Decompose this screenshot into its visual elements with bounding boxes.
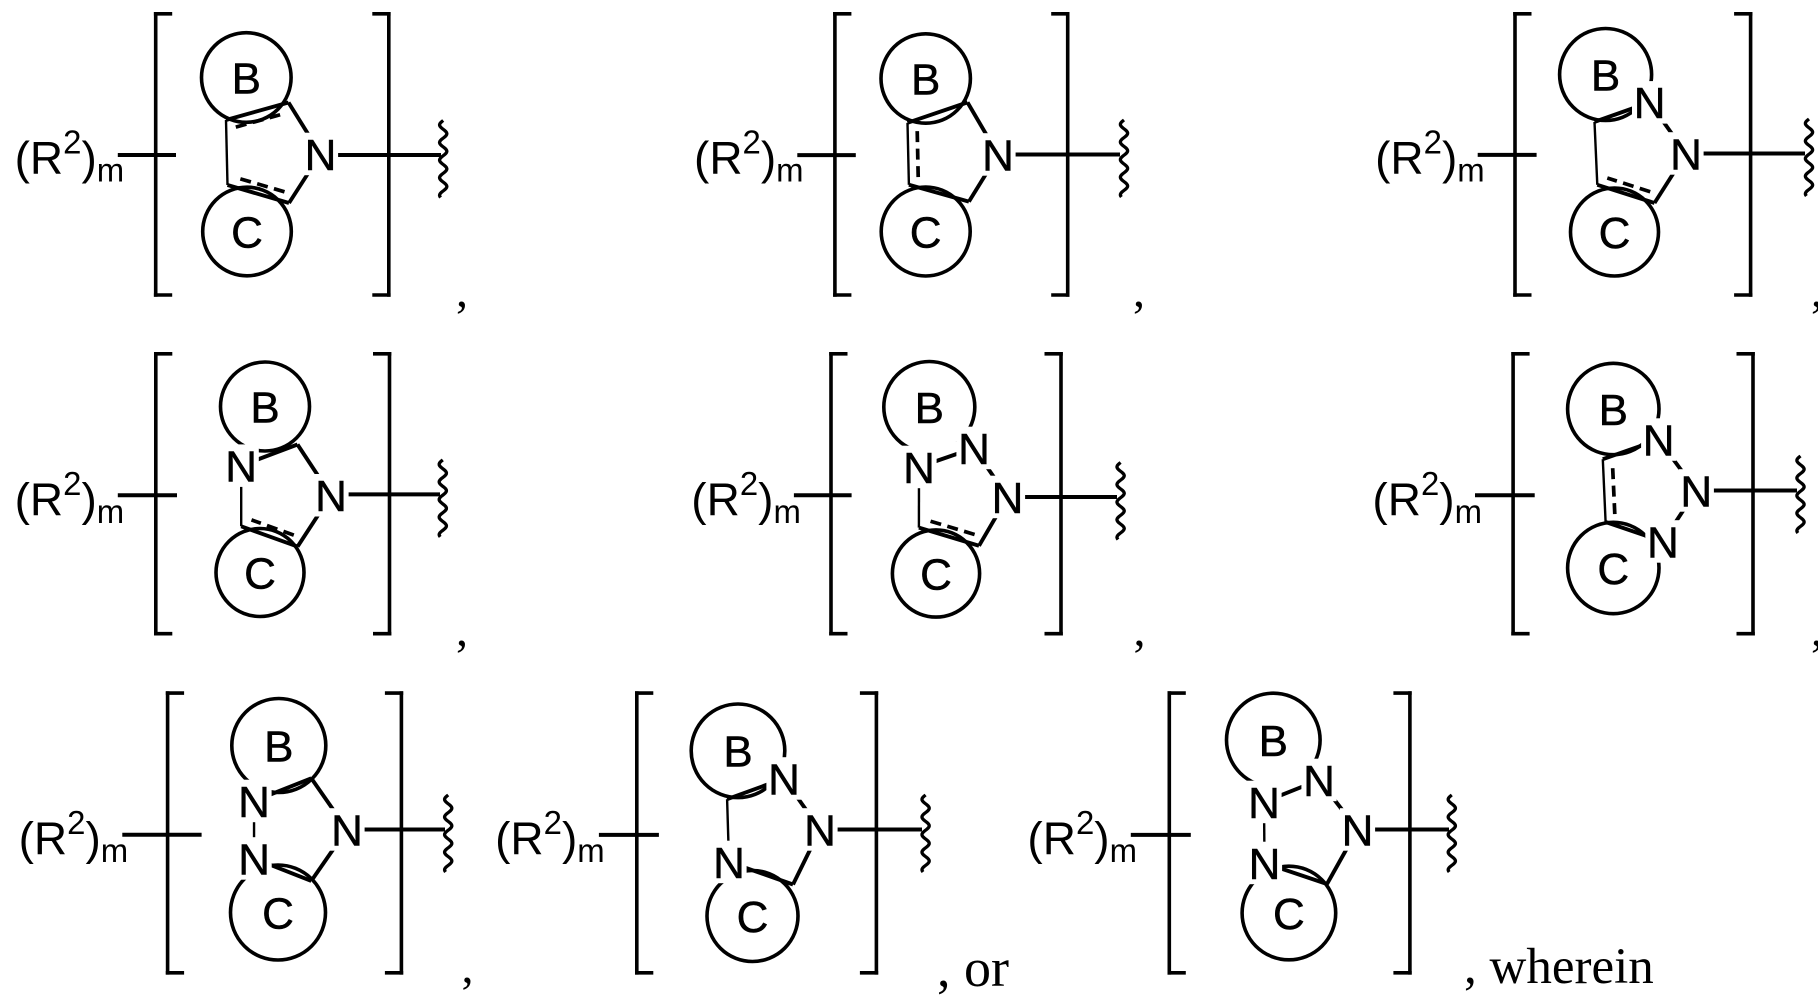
bond from (R2)m into bracket of S8: [599, 833, 659, 837]
ring C circle of S9: [1242, 866, 1336, 960]
bond from ring N to attachment point of S7: [347, 828, 445, 832]
ring B label of S3: [1588, 53, 1623, 95]
ring bond S4 v1-v2: [298, 445, 332, 496]
squiggly attachment bond of S9: [1448, 795, 1455, 872]
ring B circle of S5: [884, 362, 975, 453]
svg-text:N: N: [1303, 757, 1335, 806]
ring bond S6 v4-v0: [1603, 459, 1606, 522]
double bond dashes S1 v0-v1: [236, 114, 284, 127]
svg-text:B: B: [723, 728, 752, 777]
ring C circle of S8: [707, 871, 798, 962]
ring B circle of S2: [881, 34, 970, 123]
svg-text:,: ,: [456, 265, 468, 318]
squiggly attachment bond of S1: [440, 121, 447, 198]
atom N at vertex v0 of S4: [224, 444, 259, 487]
double bond dashes S6 v4-v0: [1613, 466, 1615, 514]
atom N at vertex v2 of S6: [1679, 469, 1714, 512]
atom N at vertex v0 of S7: [236, 780, 271, 823]
ring B circle of S3: [1560, 29, 1652, 121]
ring C label of S8: [734, 895, 771, 938]
svg-text:N: N: [331, 806, 363, 855]
ring C label of S5: [918, 552, 955, 595]
atom N at vertex v1 of S8: [766, 757, 801, 800]
bond from ring N to attachment point of S1: [321, 153, 442, 157]
atom N at vertex v4 of S9: [1247, 842, 1282, 885]
svg-text:N: N: [1342, 806, 1374, 855]
ring B circle of S8: [691, 704, 785, 798]
ring bond S5 v1-v2: [974, 448, 1008, 497]
ring B circle of S4: [221, 362, 310, 451]
ring bond S7 v0-v1: [254, 778, 311, 801]
ring bond S6 v3-v4: [1606, 522, 1663, 542]
ring B label of S4: [248, 385, 283, 428]
ring bond S4 v4-v0: [240, 466, 242, 527]
atom N at vertex v2 of S9: [1340, 808, 1375, 851]
left bracket of S5: [829, 352, 833, 636]
svg-text:,: ,: [462, 941, 474, 994]
ring B label of S1: [229, 56, 264, 98]
bond from ring N to attachment point of S9: [1358, 828, 1450, 832]
atom N at vertex v0 of S5: [901, 446, 936, 489]
ring bond S2 v3-v4: [909, 185, 969, 202]
atom N at vertex v2 of S7: [329, 808, 364, 851]
squiggly attachment bond of S7: [445, 795, 452, 872]
svg-text:C: C: [231, 208, 263, 257]
ring bond S8 v3-v4: [729, 862, 793, 885]
svg-text:,: ,: [1811, 603, 1818, 656]
left bracket of S6: [1511, 352, 1515, 636]
ring bond S7 v2-v3: [311, 830, 347, 881]
bond from ring N to attachment point of S5: [1008, 495, 1118, 499]
bond from ring N to attachment point of S6: [1696, 489, 1797, 493]
bond from ring N to attachment point of S8: [820, 828, 922, 832]
ring bond S3 v3-v4: [1597, 185, 1654, 203]
ring bond S6 v0-v1: [1603, 440, 1659, 460]
svg-text:,: ,: [1811, 265, 1818, 318]
svg-text:,: ,: [1133, 265, 1145, 318]
svg-text:N: N: [982, 131, 1014, 180]
svg-text:C: C: [910, 208, 942, 257]
ring bond S9 v4-v0: [1263, 802, 1266, 863]
bond from (R2)m into bracket of S3: [1478, 153, 1537, 157]
svg-text:,: ,: [456, 603, 468, 656]
svg-text:C: C: [244, 549, 276, 598]
double bond dashes S1 v3-v4: [237, 178, 284, 192]
ring bond S5 v2-v3: [979, 497, 1008, 546]
atom N at vertex v2 of S5: [990, 476, 1025, 519]
svg-text:N: N: [1647, 518, 1679, 567]
bond from (R2)m into bracket of S7: [122, 833, 201, 837]
ring bond S9 v0-v1: [1264, 780, 1319, 802]
svg-text:N: N: [903, 444, 935, 493]
ring bond S1 v1-v2: [289, 103, 321, 155]
ring C label of S3: [1596, 211, 1633, 254]
ring bond S1 v4-v0: [226, 120, 228, 185]
ring B label of S6: [1596, 388, 1631, 431]
svg-text:N: N: [958, 425, 990, 474]
right bracket of S6: [1751, 352, 1755, 636]
bond from ring N to attachment point of S4: [331, 492, 440, 496]
atom N at vertex v3 of S6: [1645, 520, 1680, 563]
ring bond S1 v2-v3: [289, 154, 321, 203]
left bracket of S1: [154, 12, 158, 297]
svg-text:N: N: [315, 472, 347, 521]
ring B circle of S9: [1227, 693, 1321, 787]
ring C label of S6: [1595, 547, 1632, 590]
ring B circle of S1: [202, 33, 292, 123]
svg-text:C: C: [1273, 890, 1305, 939]
right bracket of S9: [1408, 691, 1412, 974]
ring bond S2 v4-v0: [908, 123, 909, 185]
svg-text:B: B: [1259, 717, 1288, 766]
left bracket of S8: [635, 691, 639, 974]
svg-text:,: ,: [1134, 603, 1146, 656]
bond from ring N to attachment point of S3: [1686, 152, 1805, 156]
ring C circle of S4: [216, 529, 304, 617]
squiggly attachment bond of S5: [1117, 463, 1124, 540]
svg-text:N: N: [1643, 416, 1675, 465]
ring bond S9 v1-v2: [1319, 780, 1358, 830]
ring bond S5 v3-v4: [919, 528, 979, 546]
right bracket of S3: [1749, 12, 1753, 297]
bond from ring N to attachment point of S2: [998, 153, 1120, 157]
svg-text:, or: , or: [937, 938, 1009, 998]
ring C circle of S6: [1568, 522, 1659, 613]
ring C circle of S7: [231, 865, 326, 960]
svg-text:N: N: [238, 778, 270, 827]
ring bond S8 v0-v1: [727, 779, 784, 800]
svg-text:N: N: [1248, 779, 1280, 828]
double bond dashes S2 v4-v0: [917, 130, 918, 177]
double bond dashes S3 v3-v4: [1607, 178, 1650, 192]
left bracket of S3: [1513, 12, 1517, 297]
left bracket of S7: [166, 691, 170, 974]
ring C label of S1: [229, 210, 266, 253]
atom N at vertex v1 of S9: [1301, 759, 1336, 802]
svg-text:B: B: [250, 383, 279, 432]
svg-text:B: B: [1591, 51, 1620, 100]
double bond dashes S4 v3-v4: [252, 520, 294, 535]
svg-text:B: B: [264, 722, 293, 771]
ring bond S2 v0-v1: [908, 102, 968, 122]
svg-text:C: C: [1597, 545, 1629, 594]
svg-text:B: B: [232, 54, 261, 103]
ring bond S7 v1-v2: [311, 778, 347, 829]
ring bond S7 v4-v0: [253, 801, 256, 859]
ring C label of S4: [242, 551, 279, 594]
atom N at vertex v1 of S6: [1641, 418, 1676, 461]
double bond dashes S5 v3-v4: [929, 521, 975, 535]
ring C circle of S3: [1571, 188, 1659, 276]
squiggly attachment bond of S8: [922, 795, 929, 872]
ring C label of S2: [907, 210, 944, 253]
left bracket of S9: [1168, 691, 1172, 974]
svg-text:N: N: [305, 131, 337, 180]
svg-text:N: N: [1680, 467, 1712, 516]
ring B label of S2: [908, 57, 943, 99]
right bracket of S2: [1066, 12, 1070, 297]
svg-text:N: N: [768, 755, 800, 804]
svg-text:N: N: [225, 443, 257, 492]
svg-text:N: N: [1670, 130, 1702, 179]
ring bond S3 v1-v2: [1650, 102, 1686, 153]
squiggly attachment bond of S3: [1805, 119, 1812, 196]
atom N at vertex v2 of S4: [313, 474, 348, 517]
ring C label of S7: [260, 891, 297, 934]
white mask over arc fragment of S9: [1271, 771, 1311, 794]
ring bond S2 v2-v3: [969, 155, 998, 202]
ring bond S2 v1-v2: [968, 102, 999, 154]
bond from (R2)m into bracket of S2: [797, 153, 856, 157]
right bracket of S1: [387, 12, 391, 297]
atom N at vertex v2 of S2: [980, 133, 1015, 176]
ring bond S4 v3-v4: [241, 526, 297, 546]
atom N at vertex v2 of S3: [1668, 132, 1703, 175]
left bracket of S4: [154, 352, 158, 636]
svg-text:C: C: [920, 550, 952, 599]
ring C circle of S2: [881, 187, 970, 276]
svg-text:B: B: [911, 55, 940, 104]
svg-text:B: B: [1599, 386, 1628, 435]
squiggly attachment bond of S4: [439, 460, 446, 537]
ring bond S8 v2-v3: [793, 830, 820, 885]
ring bond S3 v4-v0: [1595, 122, 1598, 185]
left bracket of S2: [833, 12, 837, 297]
right bracket of S4: [388, 352, 392, 636]
ring bond S3 v0-v1: [1595, 102, 1650, 122]
bond from (R2)m into bracket of S4: [118, 493, 177, 497]
atom N at vertex v1 of S5: [956, 427, 991, 470]
ring bond S4 v0-v1: [241, 445, 297, 466]
ring C circle of S5: [892, 530, 979, 617]
bond from (R2)m into bracket of S1: [118, 153, 176, 157]
right bracket of S7: [400, 691, 404, 974]
right bracket of S8: [875, 691, 879, 974]
ring B label of S9: [1256, 719, 1291, 762]
ring bond S5 v0-v1: [919, 448, 974, 467]
ring bond S3 v2-v3: [1655, 154, 1687, 204]
ring bond S6 v1-v2: [1659, 440, 1697, 491]
ring bond S5 v4-v0: [918, 467, 920, 528]
right bracket of S5: [1059, 352, 1063, 636]
squiggly attachment bond of S2: [1120, 120, 1127, 197]
ring bond S9 v3-v4: [1265, 863, 1328, 884]
svg-text:B: B: [915, 384, 944, 433]
atom N at vertex v2 of S1: [303, 133, 338, 176]
svg-text:C: C: [737, 893, 769, 942]
ring bond S6 v2-v3: [1663, 491, 1696, 542]
ring B label of S5: [912, 386, 947, 429]
atom N at vertex v4 of S7: [237, 837, 272, 880]
bond from (R2)m into bracket of S6: [1475, 493, 1535, 497]
ring B circle of S6: [1568, 363, 1659, 454]
bond from (R2)m into bracket of S9: [1131, 833, 1191, 837]
ring C label of S9: [1271, 892, 1308, 935]
ring bond S8 v4-v0: [727, 799, 729, 862]
squiggly attachment bond of S6: [1797, 456, 1804, 533]
atom N at vertex v0 of S9: [1246, 781, 1281, 824]
atom N at vertex v2 of S8: [802, 808, 837, 851]
ring bond S1 v3-v4: [228, 185, 290, 203]
ring C circle of S1: [203, 187, 292, 276]
bond from (R2)m into bracket of S5: [794, 493, 852, 497]
svg-text:N: N: [992, 474, 1024, 523]
svg-text:, wherein: , wherein: [1464, 939, 1654, 995]
atom N at vertex v1 of S3: [1632, 81, 1667, 124]
ring bond S4 v2-v3: [298, 495, 331, 546]
svg-text:C: C: [1599, 209, 1631, 258]
white mask over arc fragment of S5: [926, 439, 967, 461]
atom N at vertex v4 of S8: [711, 841, 746, 884]
svg-text:N: N: [804, 806, 836, 855]
ring bond S1 v0-v1: [226, 103, 289, 121]
svg-text:N: N: [1634, 79, 1666, 128]
ring bond S9 v2-v3: [1327, 830, 1358, 885]
ring bond S8 v1-v2: [784, 779, 820, 830]
svg-text:C: C: [262, 889, 294, 938]
ring B label of S7: [262, 724, 297, 767]
svg-text:N: N: [238, 835, 270, 884]
ring B circle of S7: [232, 699, 326, 793]
ring B label of S8: [721, 730, 756, 773]
svg-text:N: N: [713, 839, 745, 888]
svg-text:N: N: [1249, 840, 1281, 889]
ring bond S7 v3-v4: [254, 859, 311, 881]
